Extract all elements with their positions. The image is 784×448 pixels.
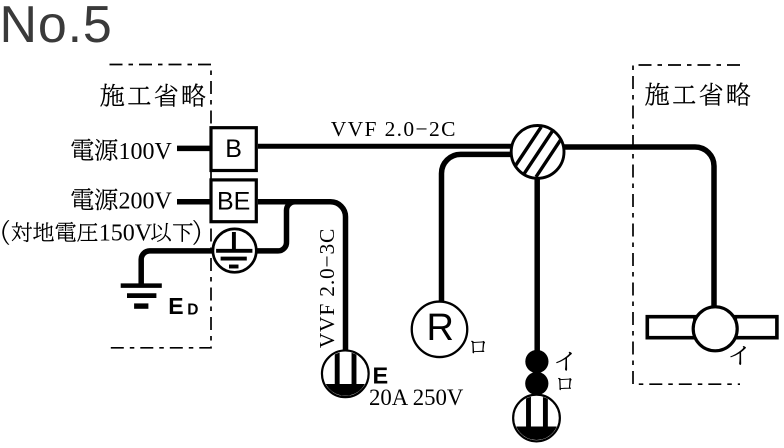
- svg-text:E: E: [168, 293, 183, 319]
- label ロ (lamp R): [471, 341, 485, 354]
- svg-text:100V: 100V: [119, 139, 173, 165]
- svg-text:20A 250V: 20A 250V: [369, 385, 464, 410]
- wire lead 100V to breaker B: [177, 146, 210, 152]
- wire junction box down to switches: [534, 177, 540, 396]
- svg-text:VVF 2.0−3C: VVF 2.0−3C: [315, 228, 339, 348]
- wire earth-terminal circle to earth electrode ED: [141, 251, 214, 286]
- left label 施工省略: [100, 83, 205, 106]
- label ロ (switch): [558, 378, 572, 390]
- ceiling light left cap: [647, 317, 695, 338]
- wire breaker BE to outlet VVF 2.0-3C run: [258, 202, 346, 351]
- wire breaker B to junction box: [258, 144, 514, 149]
- bottom outlet symbol: [512, 394, 561, 443]
- ceiling light circle: [693, 307, 737, 351]
- label 電源 (100V line): [71, 139, 117, 161]
- svg-text:BE: BE: [217, 188, 250, 216]
- outlet symbol E 20A250V: [321, 350, 370, 401]
- svg-text:R: R: [427, 307, 454, 349]
- svg-text:D: D: [187, 301, 198, 318]
- svg-text:B: B: [225, 135, 242, 163]
- lamp R circle: [412, 302, 468, 358]
- wire junction box to lamp R: [442, 154, 515, 301]
- switch dot ロ: [525, 372, 548, 395]
- left dashed construction-omitted boundary box: [109, 65, 212, 348]
- svg-text:No.5: No.5: [0, 0, 113, 54]
- svg-text:VVF 2.0−2C: VVF 2.0−2C: [331, 117, 457, 141]
- label 電源 (200V line): [71, 188, 117, 210]
- svg-text:200V: 200V: [119, 188, 173, 214]
- earth terminal circle symbol: [213, 229, 256, 272]
- label イ (switch): [556, 352, 572, 371]
- ceiling light right cap: [735, 317, 777, 338]
- wire lead 200V to breaker BE: [177, 199, 210, 205]
- breaker BE box: [211, 180, 256, 222]
- label 以下）: [151, 223, 193, 242]
- breaker B box: [211, 128, 256, 171]
- svg-text:150V: 150V: [99, 220, 153, 246]
- label イ (ceiling light): [730, 346, 746, 365]
- junction box hatched circle: [508, 125, 569, 178]
- wire junction box to ceiling light: [563, 147, 714, 306]
- earth electrode ED ground symbol: [121, 286, 162, 307]
- right label 施工省略: [645, 82, 750, 105]
- right dashed construction-omitted boundary box: [633, 65, 740, 384]
- label （対地電圧: [2, 220, 9, 245]
- switch dot イ: [525, 350, 548, 373]
- wire earth-terminal circle joining VVF 2.0-3C run: [255, 202, 300, 251]
